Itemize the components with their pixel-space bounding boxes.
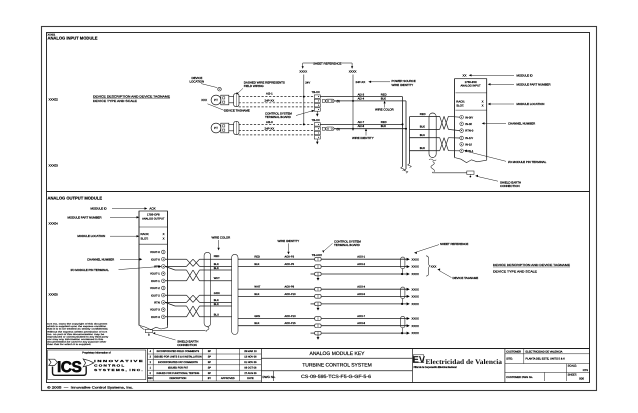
svg-text:29 MAR 10: 29 MAR 10 [244,350,257,353]
svg-text:TERMINAL BOARD: TERMINAL BOARD [334,243,360,247]
svg-text:REV: REV [148,377,153,380]
svg-text:LOCATION: LOCATION [190,80,205,84]
svg-text:INCORPORATED FAT COMMENTS: INCORPORATED FAT COMMENTS [158,361,198,364]
svg-text:SP: SP [208,350,212,353]
svg-text:WIRE COLOR: WIRE COLOR [375,108,394,112]
svg-text:SP: SP [208,356,212,359]
svg-text:XXXX: XXXX [412,318,419,321]
svg-text:TERMINAL BOARD: TERMINAL BOARD [265,115,291,119]
svg-text:XX: XX [463,73,467,77]
svg-text:IOUT-3: IOUT-3 [151,316,160,319]
svg-text:BLK: BLK [214,263,219,266]
svg-text:IN-1/I: IN-1/I [465,143,472,146]
svg-text:INCORPORATED FIELD COMMENTS: INCORPORATED FIELD COMMENTS [157,350,200,353]
svg-text:WHT: WHT [214,277,220,280]
svg-text:RTN-0: RTN-0 [465,130,473,133]
svg-text:PT: PT [214,98,218,102]
svg-text:PT: PT [214,126,218,130]
svg-text:Proprietary Information of: Proprietary Information of [82,352,111,355]
svg-text:24P-XX: 24P-XX [356,80,366,84]
svg-text:BLU: BLU [420,134,425,137]
svg-text:ISSUED FOR FUNCTIONAL TESTING: ISSUED FOR FUNCTIONAL TESTING [157,372,200,375]
svg-text:TB-XX: TB-XX [312,90,320,94]
svg-text:DEVICE DESCRIPTION AND DEVICE: DEVICE DESCRIPTION AND DEVICE TAGNAME [93,94,170,98]
svg-text:AOX-7: AOX-7 [357,315,365,318]
svg-text:006: 006 [579,377,584,381]
svg-text:AOX-P5: AOX-P5 [285,263,295,266]
svg-text:XXXX: XXXX [412,303,419,306]
svg-text:ICS Inc. owns the copyright of: ICS Inc. owns the copyright of this docu… [47,323,108,326]
svg-text:BY: BY [208,377,212,380]
svg-text:SITE:: SITE: [506,358,513,361]
svg-text:© 2005 — Innovative Control: © 2005 — Innovative Control Systems, Inc… [47,386,133,390]
svg-text:SLOT:: SLOT: [141,237,149,241]
svg-text:BLK: BLK [254,293,259,296]
svg-text:AI2-8: AI2-8 [358,125,365,128]
svg-text:XXX: XXX [201,98,207,102]
svg-text:AI2-4: AI2-4 [358,97,365,100]
svg-text:which is supplied upon the exp: which is supplied upon the express condi… [47,325,107,328]
svg-text:WIRE COLOR: WIRE COLOR [212,236,231,240]
svg-text:SP: SP [208,372,212,375]
svg-text:XXXX: XXXX [349,70,357,74]
svg-text:01 NOV 06: 01 NOV 06 [244,361,257,364]
svg-text:Without the express written pe: Without the express written permission o… [47,330,108,333]
svg-text:AOX-1: AOX-1 [357,256,365,259]
svg-text:BLK: BLK [381,97,386,100]
svg-text:BLK: BLK [214,299,219,302]
svg-text:27 AUG 06: 27 AUG 06 [244,372,257,375]
svg-text:XXX04: XXX04 [49,222,59,226]
svg-text:(2): (2) [337,128,340,131]
svg-text:MODULE ID: MODULE ID [91,207,107,211]
svg-text:WIRE IDENTITY: WIRE IDENTITY [392,83,414,87]
svg-text:AOX-P8: AOX-P8 [285,286,295,289]
svg-text:ANALOG OUTPUT: ANALOG OUTPUT [142,217,165,220]
svg-text:AOX-P13: AOX-P13 [285,315,297,318]
svg-text:CONNECTION: CONNECTION [500,184,520,188]
svg-text:DEVICE DESCRIPTION AND DEVICE: DEVICE DESCRIPTION AND DEVICE TAGNAME [493,263,570,267]
svg-text:CHANNEL NUMBER: CHANNEL NUMBER [87,257,114,261]
svg-text:TB-AOX: TB-AOX [312,254,322,257]
svg-text:GRN: GRN [254,315,260,318]
svg-text:NTS: NTS [583,369,588,372]
svg-text:XXX02: XXX02 [49,98,59,102]
svg-text:SP: SP [208,361,212,364]
svg-text:BLK: BLK [420,147,425,150]
svg-text:AOX-8: AOX-8 [357,322,365,325]
svg-text:XXX03: XXX03 [49,164,59,168]
svg-text:XXXX: XXXX [412,266,419,269]
svg-text:SP: SP [208,367,212,370]
svg-text:MODULE LOCATION: MODULE LOCATION [517,102,545,106]
svg-text:TURBINE CONTROL SYSTEM: TURBINE CONTROL SYSTEM [302,363,372,369]
svg-text:CUSTOMER DWG No.: CUSTOMER DWG No. [506,376,533,379]
svg-text:TB-XX: TB-XX [312,118,320,122]
svg-text:BLK: BLK [420,126,425,129]
svg-text:XXXX: XXXX [412,258,419,261]
svg-text:BLK: BLK [381,125,386,128]
svg-text:AOX-P3: AOX-P3 [285,256,295,259]
svg-text:S Y S T E M S , I N C .: S Y S T E M S , I N C . [94,368,143,372]
svg-text:WHT: WHT [254,286,260,289]
svg-text:IOUT-1: IOUT-1 [151,280,160,283]
svg-text:X: X [163,232,165,236]
svg-text:AI2-1: AI2-1 [266,92,273,96]
svg-text:PLANTA DEL ESTE, UNITS 5 & 6: PLANTA DEL ESTE, UNITS 5 & 6 [526,358,566,361]
svg-text:AOX-2: AOX-2 [357,263,365,266]
svg-text:1756-IF8I: 1756-IF8I [465,80,477,84]
svg-text:RED: RED [214,255,220,258]
svg-text:FIELD WIRING: FIELD WIRING [244,84,265,88]
svg-text:24V: 24V [305,82,310,85]
svg-text:I/O MODULE PIN TERMINAL: I/O MODULE PIN TERMINAL [71,268,110,272]
svg-text:SLOT:: SLOT: [456,103,464,107]
svg-text:AI2-3: AI2-3 [266,120,273,124]
svg-text:SHEET REFERENCE: SHEET REFERENCE [440,242,468,246]
svg-text:MODULE PART NUMBER: MODULE PART NUMBER [68,215,102,219]
svg-text:24P-XX: 24P-XX [265,99,275,103]
svg-text:AOX-4: AOX-4 [357,286,365,289]
svg-text:24P-XX: 24P-XX [265,126,275,130]
svg-text:06 OCT 06: 06 OCT 06 [244,367,257,370]
svg-text:IOUT-0: IOUT-0 [151,258,160,261]
svg-text:MODULE ID: MODULE ID [517,73,533,77]
svg-text:WIRE IDENTITY: WIRE IDENTITY [278,239,300,243]
svg-text:XXXX: XXXX [412,273,419,276]
svg-text:DEVICE TAGNAME: DEVICE TAGNAME [224,109,250,113]
svg-text:AOX-P10: AOX-P10 [285,293,297,296]
svg-text:ANALOG MODULE KEY: ANALOG MODULE KEY [309,351,365,357]
svg-text:Inc. no part of this documenta: Inc. no part of this documentation may b… [47,333,105,336]
svg-text:XXXX: XXXX [412,296,419,299]
svg-text:BLK: BLK [214,267,219,270]
svg-text:VOUT-2: VOUT-2 [150,287,160,290]
svg-text:ELECTRICIDAD DE VALENCIA: ELECTRICIDAD DE VALENCIA [526,351,563,354]
svg-text:ICS: ICS [57,359,82,376]
svg-text:RTN: RTN [154,266,160,269]
svg-text:APPROVED: APPROVED [221,377,235,380]
svg-text:VOUT-1: VOUT-1 [150,273,160,276]
svg-text:CONNECTION: CONNECTION [177,343,197,347]
svg-text:I N N O V A T I V E: I N N O V A T I V E [94,359,143,363]
svg-text:(2): (2) [337,100,340,103]
svg-text:RED: RED [420,113,426,116]
svg-text:DESCRIPTION: DESCRIPTION [169,377,186,380]
svg-text:ISSUED FOR UNITS 5 & 6 INSTALL: ISSUED FOR UNITS 5 & 6 INSTALLATION [154,356,202,359]
svg-text:VOUT-0: VOUT-0 [150,251,160,254]
svg-text:I/O MODULE PIN TERMINAL: I/O MODULE PIN TERMINAL [508,160,547,164]
svg-text:XXX: XXX [431,264,437,268]
svg-text:CHANNEL NUMBER: CHANNEL NUMBER [508,121,535,125]
svg-text:CUSTOMER: CUSTOMER [506,351,521,354]
svg-text:Filial de la Corporación Eléct: Filial de la Corporación Eléctrica Nacio… [414,366,457,369]
svg-text:DEVICE TYPE AND SCALE: DEVICE TYPE AND SCALE [93,99,137,103]
svg-text:MODULE PART NUMBER: MODULE PART NUMBER [517,82,551,86]
svg-text:AI2-3: AI2-3 [358,93,365,96]
svg-text:RED: RED [381,121,387,124]
svg-text:RED: RED [381,93,387,96]
svg-text:GRN: GRN [214,292,220,295]
svg-text:AI2-7: AI2-7 [358,121,365,124]
svg-text:ANALOG OUTPUT MODULE: ANALOG OUTPUT MODULE [48,196,103,201]
svg-text:IOUT-2: IOUT-2 [151,294,160,297]
svg-text:XXX05: XXX05 [49,293,59,297]
svg-text:DEVICE TAGNAME: DEVICE TAGNAME [453,276,479,280]
svg-text:DWG No.: DWG No. [263,375,276,379]
svg-text:nor may any information contai: nor may any information contained in thi… [47,338,103,341]
svg-text:WIRE IDENTITY: WIRE IDENTITY [352,136,374,140]
svg-text:AOX-5: AOX-5 [357,293,365,296]
svg-text:BLK: BLK [254,322,259,325]
svg-text:DEVICE TYPE AND SCALE: DEVICE TYPE AND SCALE [493,270,537,274]
svg-text:CS-09-595-TCS-F5-G-GF-5-6: CS-09-595-TCS-F5-G-GF-5-6 [301,374,371,379]
svg-text:X: X [482,103,484,107]
svg-text:SHEET:: SHEET: [568,373,577,376]
svg-text:Electricidad de Valencia: Electricidad de Valencia [426,358,503,366]
svg-text:ANALOG INPUT: ANALOG INPUT [460,84,481,87]
svg-text:IN-1/V: IN-1/V [465,137,473,140]
svg-text:1756-OF8: 1756-OF8 [147,212,160,216]
svg-text:SHEET REFERENCE: SHEET REFERENCE [313,61,341,65]
svg-text:IN-0/I: IN-0/I [465,123,472,126]
svg-text:X: X [163,237,165,241]
svg-text:XXXX: XXXX [412,332,419,335]
svg-text:reproduced or communicated to: reproduced or communicated to any third … [47,335,109,338]
svg-text:AOX-P15: AOX-P15 [285,322,297,325]
svg-text:ISSUED FOR FAT: ISSUED FOR FAT [168,367,189,370]
svg-text:XXXX: XXXX [299,70,307,74]
svg-text:RED: RED [254,256,260,259]
svg-text:BLK: BLK [254,263,259,266]
svg-text:RTN: RTN [154,302,160,305]
svg-text:IN-0/V: IN-0/V [465,116,473,119]
svg-text:BLU: BLU [214,314,219,317]
svg-text:13 NOV 06: 13 NOV 06 [244,356,257,359]
svg-text:than that for which it is supp: than that for which it is supplied. [47,343,92,346]
svg-text:AOX: AOX [149,207,155,211]
svg-text:MODULE LOCATION: MODULE LOCATION [77,234,105,238]
svg-text:ANALOG INPUT MODULE: ANALOG INPUT MODULE [48,35,98,40]
svg-text:DATE: DATE [247,377,254,380]
svg-text:VOUT-3: VOUT-3 [150,309,160,312]
svg-text:RACK:: RACK: [141,232,150,236]
svg-text:that it is to be treated as st: that it is to be treated as strictly con… [47,328,109,331]
svg-text:XXXX: XXXX [412,325,419,328]
svg-text:XXXX: XXXX [412,288,419,291]
svg-text:C O N T R O L: C O N T R O L [94,364,124,368]
svg-text:BLK: BLK [214,303,219,306]
svg-text:documentation be used for any: documentation be used for any purpose ot… [47,340,106,343]
svg-text:SCALE:: SCALE: [568,365,578,368]
